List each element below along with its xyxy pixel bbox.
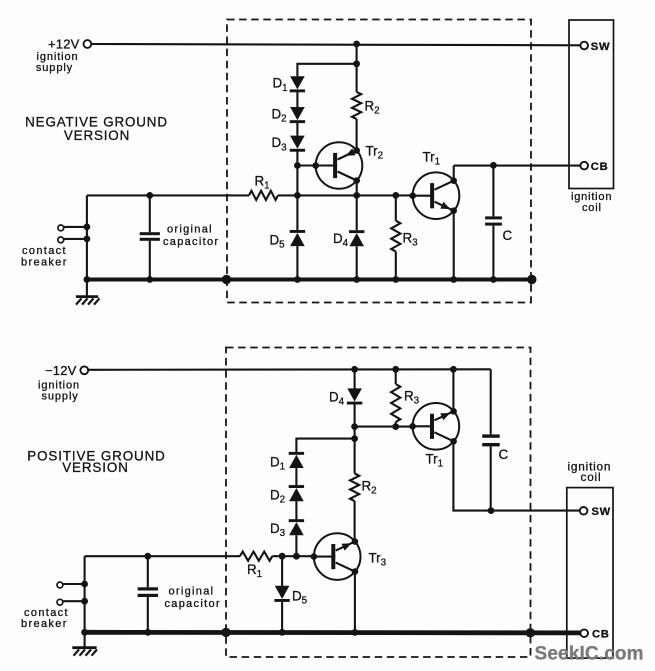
junction bus/D5	[294, 276, 301, 283]
diode D5	[290, 230, 305, 246]
label Tr1	[423, 150, 441, 168]
contact breaker (bottom)	[57, 581, 88, 606]
svg-text:contact: contact	[22, 245, 67, 257]
wire +12V supply rail	[92, 44, 581, 45]
wire chain top	[296, 439, 354, 453]
wire Tr3 collector to bus	[354, 572, 356, 633]
label C (bottom)	[499, 447, 509, 462]
resistor R3	[391, 195, 400, 279]
svg-text:original: original	[169, 585, 215, 597]
wire node to D5	[296, 195, 298, 230]
junction chain/R2 node	[351, 435, 358, 442]
junction bus/original capacitor (bottom)	[144, 629, 151, 636]
junction rail/R2	[353, 41, 360, 48]
label SW (bottom)	[592, 506, 611, 518]
label R3	[403, 231, 419, 249]
terminal CB (bottom)	[580, 629, 588, 637]
junction node/R3 branch	[392, 192, 399, 199]
junction bus/original capacitor	[146, 276, 153, 283]
label D1	[273, 76, 288, 94]
svg-text:capacitor: capacitor	[163, 236, 219, 248]
wire R1 node to Tr1 base	[297, 194, 412, 196]
transistor Tr1 (bottom)	[409, 403, 459, 450]
label CB (top)	[591, 161, 609, 173]
resistor R1 (bottom)	[240, 552, 272, 561]
resistor R1	[249, 191, 278, 200]
capacitor C	[485, 165, 502, 279]
svg-text:SW: SW	[591, 41, 610, 53]
label contact breaker	[21, 245, 68, 269]
junction node/D4 branch	[353, 192, 360, 199]
svg-text:C: C	[503, 228, 513, 243]
label ignition supply (bottom)	[38, 379, 80, 402]
wire Tr1 base node	[355, 426, 413, 428]
svg-text:SW: SW	[592, 506, 611, 518]
label contact breaker (bottom)	[21, 607, 69, 630]
wire -12V supply rail	[89, 368, 491, 371]
contact breaker	[58, 224, 90, 243]
wire D4 to bus	[356, 246, 358, 279]
wire D1-D2	[296, 92, 298, 107]
svg-text:contact: contact	[24, 607, 69, 619]
transistor Tr2	[312, 142, 362, 189]
wire collector to CB	[454, 165, 581, 167]
watermark SeekIC.com	[535, 644, 644, 665]
junction bus/left drop (bottom)	[81, 629, 88, 636]
label D3	[272, 135, 288, 153]
ground bus (top)	[85, 278, 532, 282]
label original capacitor	[163, 224, 219, 249]
svg-text:coil: coil	[582, 202, 602, 214]
junction R1 node/chain	[293, 553, 300, 560]
capacitor original (top)	[140, 195, 160, 279]
label D4 (bottom)	[329, 390, 345, 408]
label Tr3	[369, 551, 387, 569]
ignition coil box (top)	[569, 20, 614, 189]
svg-text:capacitor: capacitor	[165, 598, 221, 610]
label D2	[272, 106, 287, 124]
wire D5 to bus (bottom)	[281, 602, 283, 633]
label D2 (bottom)	[270, 488, 285, 506]
wire left node to R1	[87, 194, 249, 196]
label original capacitor (bottom)	[165, 585, 221, 610]
label ignition supply	[36, 51, 79, 74]
wire R1 to node	[278, 194, 297, 196]
wire Tr2 base feed	[297, 164, 315, 166]
label R3 (bottom)	[404, 389, 420, 407]
label D5	[270, 233, 286, 251]
svg-text:coil: coil	[581, 470, 602, 484]
svg-text:C: C	[499, 447, 509, 462]
junction SW wire/C	[488, 507, 495, 514]
label D3 (bottom)	[270, 521, 286, 539]
label Tr1 (bottom)	[426, 452, 444, 470]
svg-text:VERSION: VERSION	[64, 128, 130, 143]
wire D2-D3 (bottom)	[295, 501, 297, 519]
wire node link	[354, 427, 356, 439]
junction bus/enclosure edge right	[527, 275, 536, 284]
junction node/D5 branch	[294, 192, 301, 199]
svg-text:breaker: breaker	[21, 257, 68, 269]
wire D3 to base node	[296, 151, 298, 195]
wire D2-D3	[296, 123, 298, 136]
junction bus/D4	[353, 276, 360, 283]
label CB (bottom)	[592, 629, 610, 641]
transistor Tr3	[311, 533, 361, 580]
label R2	[365, 99, 380, 117]
junction R3/base node	[392, 423, 399, 430]
resistor R3 (bottom)	[391, 369, 400, 426]
wire D1-D2 (bottom)	[295, 468, 297, 485]
diode D4	[349, 230, 364, 246]
wire Tr2 collector to node	[356, 181, 358, 196]
label D4	[333, 231, 349, 249]
wire Tr1 emitter to bus	[453, 211, 455, 280]
junction D4/base node	[351, 423, 358, 430]
svg-text:CB: CB	[591, 161, 609, 173]
junction chain/base	[294, 162, 301, 169]
wire left node to R1 (bottom)	[85, 555, 240, 557]
junction R1 node/D5 branch	[279, 553, 286, 560]
junction bus/Tr1 emitter	[450, 276, 457, 283]
diode D3 (bottom)	[289, 519, 304, 535]
junction bus/D5 (bottom)	[279, 629, 286, 636]
wire D5 to bus	[296, 246, 298, 279]
junction bus/enclosure left (bottom)	[221, 628, 230, 637]
junction CB wire/C	[490, 162, 497, 169]
junction bus/R3	[392, 276, 399, 283]
wire left drop	[86, 195, 88, 279]
wire D4 to base node	[354, 404, 356, 426]
svg-text:breaker: breaker	[21, 618, 68, 630]
terminal SW (top)	[580, 42, 588, 50]
svg-text:VERSION: VERSION	[62, 460, 129, 475]
label R1	[255, 174, 270, 192]
wire left drop (bottom)	[84, 556, 86, 632]
svg-text:+12V: +12V	[48, 36, 80, 51]
junction bus/enclosure right (bottom)	[526, 628, 535, 637]
diode D4 (bottom)	[347, 388, 362, 404]
label +12V	[48, 36, 80, 51]
resistor R2	[352, 64, 361, 151]
ground bus (bottom)	[83, 630, 581, 635]
junction bus/Tr3 collector	[352, 629, 359, 636]
ground symbol (bottom)	[72, 632, 97, 655]
wire node to D4	[356, 195, 358, 230]
junction R1 wire/original capacitor (bottom)	[144, 553, 151, 560]
label Tr2	[366, 144, 384, 162]
capacitor C (bottom)	[482, 369, 500, 510]
junction R1 wire/original capacitor	[146, 192, 153, 199]
junction rail/Tr1 emitter	[450, 366, 457, 373]
label ignition coil (top)	[571, 191, 612, 214]
ground symbol	[76, 280, 100, 305]
label POSITIVE GROUND VERSION	[27, 449, 166, 475]
svg-text:CB: CB	[592, 629, 610, 641]
wire rail to D4	[354, 369, 356, 388]
junction rail/R3	[392, 366, 399, 373]
terminal CB (top)	[580, 162, 588, 170]
junction bus/enclosure edge left	[222, 275, 231, 284]
wire Tr1 emitter riser	[452, 369, 454, 411]
label ignition coil (bottom)	[568, 459, 612, 484]
junction rail/D4	[351, 366, 358, 373]
svg-text:SeekIC.com: SeekIC.com	[535, 644, 644, 665]
capacitor original (bottom)	[138, 556, 158, 632]
wire D3 to R1 node	[295, 535, 297, 556]
label R1 (bottom)	[247, 562, 262, 580]
label R2 (bottom)	[362, 479, 377, 497]
diode D2	[290, 107, 305, 123]
svg-text:original: original	[167, 224, 213, 236]
wire R1 to Tr3 base	[272, 555, 314, 557]
wire Tr1 collector to SW	[453, 441, 579, 510]
diode D1	[290, 76, 305, 92]
diode D3	[290, 136, 305, 152]
diode D5 (bottom)	[274, 586, 289, 602]
ignition coil box (bottom)	[567, 488, 613, 658]
dashed enclosure (positive ground unit)	[226, 348, 531, 658]
label C	[503, 228, 513, 243]
terminal +12V supply	[84, 40, 92, 48]
terminal SW (bottom)	[580, 507, 588, 515]
label NEGATIVE GROUND VERSION	[25, 115, 168, 143]
svg-text:supply: supply	[36, 62, 73, 74]
transistor Tr1	[409, 172, 459, 219]
diode D1 (bottom)	[289, 452, 304, 468]
junction bus/left drop	[84, 276, 91, 283]
dashed enclosure (negative ground unit)	[227, 20, 531, 303]
label SW (top)	[591, 41, 610, 53]
terminal -12V supply	[80, 366, 88, 374]
label -12V	[45, 363, 77, 378]
label D5 (bottom)	[292, 589, 308, 607]
junction R2 top	[353, 60, 360, 67]
resistor R2 (bottom)	[350, 439, 359, 542]
label D1 (bottom)	[270, 455, 285, 473]
wire diode-chain top	[297, 64, 356, 77]
wire node to D5 (bottom)	[281, 556, 283, 586]
diode D2 (bottom)	[289, 485, 304, 501]
wire Tr1 collector riser	[453, 166, 455, 181]
junction bus/C	[490, 276, 497, 283]
svg-text:supply: supply	[42, 390, 79, 402]
wire rail to R2/diode-chain	[356, 44, 358, 64]
svg-text:−12V: −12V	[45, 363, 77, 378]
